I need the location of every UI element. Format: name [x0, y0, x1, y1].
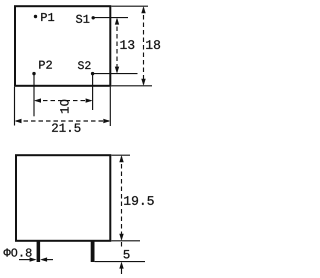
- side view right pin: [91, 241, 95, 262]
- dimension line 5: [119, 242, 123, 274]
- bottom edge extension line: [111, 85, 152, 87]
- dimension line 10: [34, 98, 93, 102]
- dimension text phi 0.8: [4, 248, 32, 256]
- dimension text 19.5: [124, 196, 153, 205]
- top view body outline: [15, 6, 110, 86]
- label P1: [41, 13, 54, 21]
- dimension text 10 (rotated): [60, 100, 68, 113]
- pin S2 dot: [91, 72, 94, 75]
- side view body outline: [16, 155, 110, 241]
- pin P2 dot: [32, 72, 35, 75]
- P2 extension line down: [33, 75, 35, 116]
- 21.5 left extension line: [14, 87, 16, 126]
- dimension text 21.5: [52, 123, 80, 131]
- dimension line 21.5: [15, 119, 111, 123]
- dimension text 5: [124, 250, 130, 258]
- dimension line 18: [141, 6, 145, 86]
- 19.5 top extension line: [111, 154, 130, 156]
- top edge extension line: [111, 5, 148, 7]
- pin S1 dot: [92, 16, 95, 19]
- dimension text 18: [146, 40, 160, 49]
- dimension text 13: [120, 40, 134, 49]
- label S2: [78, 61, 91, 69]
- 5 bottom extension line (pin tip): [95, 261, 145, 263]
- S2 extension line: [94, 73, 138, 75]
- phi 0.8 left arrow: [19, 257, 37, 261]
- 5 top extension line (body bottom extended): [111, 240, 140, 242]
- label S1: [76, 15, 89, 23]
- side view left pin: [37, 241, 41, 262]
- label P2: [39, 61, 52, 69]
- 21.5 right extension line: [109, 87, 111, 126]
- phi 0.8 right arrow: [40, 257, 53, 261]
- pin P1 dot: [34, 15, 37, 18]
- S1 extension line: [95, 17, 129, 19]
- dimension line 13: [115, 18, 119, 74]
- dimension line 19.5: [119, 155, 123, 241]
- S2 extension line down: [92, 75, 94, 110]
